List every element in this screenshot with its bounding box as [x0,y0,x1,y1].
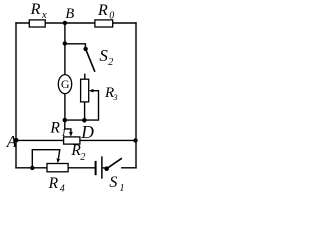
battery positive plate (long) [101,156,103,178]
resistor R0 [95,20,113,27]
galvanometer G ellipse [58,75,71,94]
junction dot G bottom [63,118,68,123]
wire S1 fixed contact to right corner [122,167,136,169]
switch S1 pivot dot [104,166,109,171]
wire bridge bottom rail A to right border [16,139,136,141]
wire R4 wiper return [32,150,59,168]
svg-text:R: R [48,175,59,192]
svg-text:S: S [109,174,117,191]
svg-text:R: R [97,2,108,19]
R4 wiper arrow diagonal with arrowhead [58,150,59,159]
node A junction dot [14,138,19,143]
resistor R4 rheostat box on bottom wire [47,164,68,172]
wire outer border top side [16,22,136,24]
R3 wiper arrowhead pointing left [89,89,94,93]
wire galvanometer junction bus y=120 [65,91,99,120]
svg-text:0: 0 [109,11,114,22]
svg-text:G: G [61,77,70,91]
wire battery to S1 pivot [102,167,106,169]
svg-text:B: B [65,6,74,22]
R2 wiper arrowhead pointing down [69,132,73,137]
switch S2 blade [86,49,95,72]
svg-text:A: A [6,132,18,151]
svg-text:2: 2 [80,152,85,163]
switch S1 blade [107,158,122,169]
junction dot R4 wiper return on bottom wire [30,166,34,170]
svg-text:2: 2 [108,57,113,68]
resistor R3 (vertical box) [81,79,89,102]
svg-text:D: D [80,122,94,142]
svg-text:3: 3 [112,92,117,102]
svg-text:S: S [99,46,108,65]
wire outer border left side [15,23,17,168]
svg-text:R: R [49,119,60,136]
wire R3 bottom lead [84,102,86,120]
wire bottom left segment to battery [16,167,95,169]
svg-text:1: 1 [61,128,66,139]
resistor Rx [29,20,45,27]
wire outer border right side [135,23,137,168]
wire S2 branch [65,44,86,49]
junction dot R3 bottom [82,118,87,123]
node B junction dot [63,21,67,25]
wire B column (B to G, G to lower junction) [64,23,66,120]
svg-text:4: 4 [60,184,65,195]
junction dot rail meets right border [133,138,137,142]
wire R3 top lead [84,74,86,79]
wire R2 wiper from junction [65,120,71,133]
svg-text:x: x [41,9,47,21]
junction dot B-S2 split [63,41,67,45]
battery negative plate (short) [95,161,97,175]
switch S2 pivot dot [83,47,87,51]
svg-text:R: R [30,1,41,18]
svg-text:1: 1 [120,183,125,194]
resistor R2 potentiometer box on rail [64,137,80,144]
